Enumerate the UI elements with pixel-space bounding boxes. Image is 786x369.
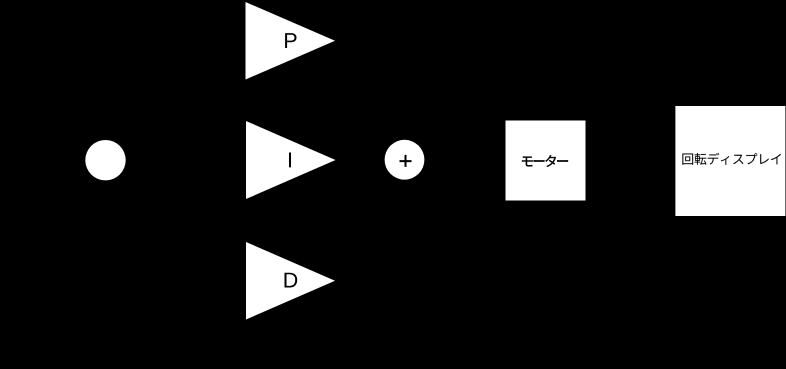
- block: motor (モーター): [506, 121, 586, 201]
- wire: input node to I amplifier: [126, 159, 246, 161]
- wire: input node to P amplifier: [126, 41, 246, 160]
- block: rotating display (回転ディスプレイ): [675, 106, 785, 216]
- wire: input node to D amplifier: [126, 160, 246, 281]
- wire: I amplifier output to summing junction: [336, 159, 385, 161]
- wire: D amplifier output to summing junction: [335, 180, 405, 281]
- wire: summing junction to motor block: [425, 159, 506, 162]
- wire: motor block to rotating display block: [586, 160, 676, 163]
- amplifier I (integral gain triangle): [246, 121, 336, 199]
- amplifier D (derivative gain triangle): [246, 242, 335, 320]
- wire: P amplifier output to summing junction: [335, 41, 405, 140]
- node: input node circle: [85, 140, 125, 180]
- summing junction circle with plus sign: [385, 140, 425, 180]
- amplifier P (proportional gain triangle): [246, 2, 336, 80]
